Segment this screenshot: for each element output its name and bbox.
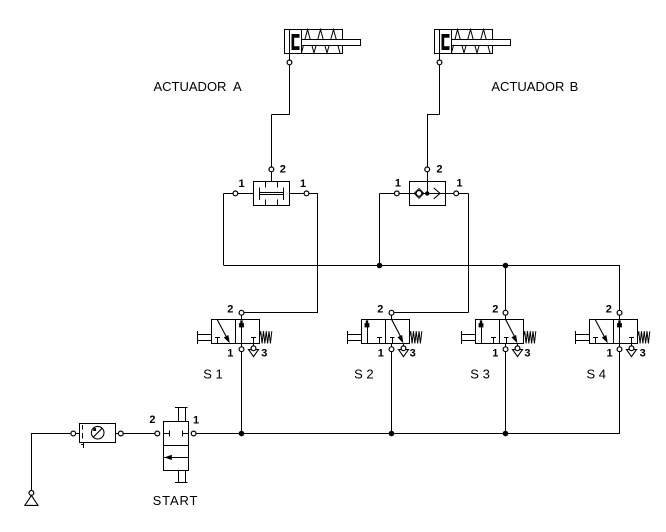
svg-text:1: 1 [239,178,245,190]
wire filter-to-start [123,433,155,435]
svg-text:1: 1 [193,415,199,427]
wire VB left elbow [380,193,395,195]
svg-text:2: 2 [280,164,286,176]
air service unit F1 [80,424,116,443]
wire source-to-filter [31,433,71,435]
wire S1 port1 riser [241,352,243,434]
wire supply bus [196,433,620,435]
junction pilotbus-S3 [503,263,509,269]
valve S2 (3/2 NC) [362,320,410,344]
wire S2 port1 riser [391,352,393,434]
svg-text:1: 1 [492,347,498,359]
wire cylB to VB port2 [427,115,429,168]
svg-text:S 3: S 3 [470,366,490,381]
svg-text:ACTUADOR: ACTUADOR [491,79,564,94]
wire VA left down [223,193,225,265]
svg-text:S 2: S 2 [354,366,374,381]
wire pilotbus to S3 port2 [505,265,507,310]
svg-text:3: 3 [640,347,646,359]
svg-text:1: 1 [227,347,233,359]
svg-text:2: 2 [436,164,442,176]
wire cylA jog [271,114,289,116]
svg-text:1: 1 [300,178,306,190]
wire filter-internal-right [115,433,118,435]
wire cylB down [439,65,441,115]
wire cylA to VA port2 [271,115,273,168]
wire filter-internal-left [76,433,80,435]
svg-text:ACTUADOR: ACTUADOR [154,79,227,94]
svg-text:S 1: S 1 [203,366,223,381]
wire pilotbus to S4 port2 [619,265,621,310]
wire VA right down [309,193,318,195]
svg-text:1: 1 [378,347,384,359]
junction bus-S2 [389,431,395,437]
svg-text:1: 1 [456,177,462,189]
wire pilot bus [224,265,620,267]
svg-text:2: 2 [492,304,498,316]
wire cylB jog [427,114,439,116]
wire VB right down [459,193,469,195]
svg-text:3: 3 [410,347,416,359]
compressed air source [31,434,33,491]
svg-text:A: A [233,79,242,94]
valve S3 (3/2 NC) [476,320,524,344]
junction bus-S1 [239,431,245,437]
svg-text:3: 3 [261,347,267,359]
svg-text:B: B [570,79,579,94]
svg-text:S 4: S 4 [587,366,607,381]
cylinder ACTUADOR B [435,30,493,54]
svg-text:2: 2 [149,414,155,426]
svg-text:2: 2 [377,304,383,316]
svg-text:3: 3 [524,347,530,359]
valve S1 (3/2 NO) [212,320,260,344]
svg-text:2: 2 [227,304,233,316]
svg-text:1: 1 [395,177,401,189]
junction pilotbus-VB [377,263,383,269]
valve START (3/2 hand valve) [164,422,189,471]
svg-text:2: 2 [606,304,612,316]
cylinder ACTUADOR A [285,30,343,54]
wire S3 port1 riser [505,352,507,434]
wire VB to S2 port2 [394,312,469,314]
svg-text:1: 1 [607,347,613,359]
two-pressure valve VA (AND) [254,182,290,206]
valve S4 (3/2 NO) [590,320,638,344]
svg-text:START: START [153,493,199,508]
wire S4 port1 riser [619,352,621,434]
wire cylA down [289,65,291,115]
shuttle valve VB (OR) [410,182,446,206]
junction bus-S3 [503,431,509,437]
wire VA to S1 port2 [244,312,318,314]
